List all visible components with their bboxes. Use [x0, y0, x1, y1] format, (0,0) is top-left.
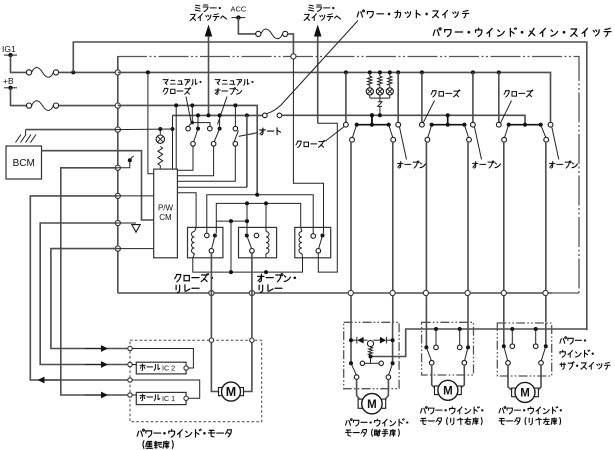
svg-text:+B: +B — [3, 76, 14, 86]
auto switch lower contact — [233, 142, 238, 147]
terminal dot — [128, 158, 132, 162]
RR center contacts — [435, 329, 437, 345]
manual open blade — [218, 127, 222, 131]
wire pass motor left — [357, 379, 360, 399]
wire open relay to motor — [241, 253, 252, 391]
passenger motor label — [346, 419, 409, 426]
wire RL motor left — [508, 365, 512, 390]
motor M driver — [219, 388, 223, 396]
junction RR feed — [434, 327, 438, 331]
auto switch upper contact — [233, 126, 238, 131]
auto switch feed drop — [233, 103, 237, 107]
relay3 contact — [311, 234, 316, 239]
hall IC1 box — [136, 392, 186, 404]
relay close coil — [192, 232, 195, 254]
P/W CM box — [154, 169, 178, 258]
connector pin bottom x425.9 — [423, 290, 428, 295]
wire pin168 to hall IC1 — [61, 168, 128, 395]
row A wire power cut output — [282, 115, 525, 124]
svg-text:ACC: ACC — [230, 5, 246, 14]
wire W1 coil common — [193, 258, 303, 272]
power cut switch label — [357, 10, 469, 18]
junction N2 b — [264, 201, 268, 205]
wire N4 relay1 contact — [215, 221, 217, 233]
junction zener row A — [378, 113, 382, 117]
connector pin left y72.4 — [115, 70, 120, 75]
connector pin bottom x392.6 — [390, 290, 395, 295]
svg-text:M: M — [226, 385, 236, 399]
resistor R1 — [159, 129, 161, 135]
pointer manual close — [186, 97, 192, 125]
fuse F3 ACC — [256, 31, 261, 36]
svg-text:IG1: IG1 — [2, 44, 16, 54]
hall IC1 pin — [184, 396, 188, 400]
switch group G2 rear right — [420, 70, 424, 74]
relay3 box — [295, 227, 331, 257]
manual switch contact jog — [192, 123, 210, 127]
junction G1 rowA — [370, 113, 374, 117]
wire hall IC1 out — [132, 380, 200, 398]
junction bus to CM — [146, 70, 150, 74]
relay close contact — [205, 233, 210, 238]
rear right chain box — [422, 322, 474, 375]
wire W2 relay3 blade to riser — [318, 123, 338, 272]
svg-text:CM: CM — [159, 213, 172, 222]
pointer close G3 — [501, 101, 512, 123]
BCM box — [6, 146, 42, 179]
junction N2 a — [245, 201, 249, 205]
motor M rear right — [435, 386, 439, 395]
svg-text:BCM: BCM — [13, 158, 35, 169]
wire ground to main switch pin — [26, 129, 116, 131]
close label G3 — [504, 90, 533, 97]
ground — [25, 130, 27, 135]
signal arrow left — [44, 379, 61, 381]
relay open label — [258, 274, 296, 282]
relay close label — [175, 274, 213, 282]
pointer manual open — [218, 97, 228, 125]
diode D1 — [351, 339, 357, 341]
hall pin y380 — [128, 378, 132, 382]
wire CM to relay1 coil — [177, 193, 196, 228]
power cut switch blade pointer — [267, 21, 358, 114]
wire close relay to motor — [211, 253, 221, 391]
arrow to mirror switch 2 — [317, 35, 319, 124]
illumination lamps — [368, 70, 372, 74]
hall IC2 pin — [184, 366, 188, 370]
wire relay1 contact to relay3 contact — [207, 195, 313, 234]
wire pin249 to CM — [118, 248, 154, 250]
junction lamp wire — [158, 127, 162, 131]
svg-text:M: M — [443, 385, 453, 397]
signal arrow 2 — [85, 364, 102, 366]
wire bus drop to CM — [148, 72, 154, 173]
motor M rear left — [512, 388, 516, 397]
connector pin left y129.6 — [115, 127, 120, 132]
RR blades — [426, 347, 431, 360]
signal arrow 3 — [85, 394, 102, 396]
wire RR motor right — [461, 365, 465, 388]
main switch solid edge bottom — [118, 292, 552, 294]
wire RR left drop — [425, 322, 427, 347]
wire ACC to fuse — [238, 18, 255, 34]
auto label — [260, 128, 281, 135]
passenger blades — [351, 363, 356, 375]
wire pin223 to hall IC2 — [40, 223, 127, 365]
pointer open G3 — [552, 127, 559, 160]
junction row2 c — [245, 113, 249, 117]
wire ACC to relay3 contact — [293, 59, 323, 233]
wire N2 to relay2 contact — [246, 203, 248, 233]
wire pin249 to hall — [51, 249, 128, 349]
wire open contact to CM — [177, 146, 213, 176]
switch group G3 rear left — [497, 70, 501, 74]
contact circle open lower — [211, 142, 216, 147]
wire BCM to P/W CM — [42, 151, 154, 220]
hall pin y364.5 — [128, 362, 132, 366]
close label G1 — [296, 140, 325, 147]
connector pin left y248.6 — [115, 246, 120, 251]
wire pin196 to hall left arrow — [30, 196, 127, 380]
diode D2 — [386, 339, 392, 341]
svg-text:IC 1: IC 1 — [162, 394, 175, 403]
manual close blade — [196, 127, 200, 131]
junction N3 b — [245, 219, 249, 223]
junction row2 b — [218, 113, 222, 117]
power cut switch — [263, 113, 268, 118]
connector pin bottom x503.8 — [501, 290, 506, 295]
junction IG1 feed riser — [71, 70, 75, 74]
junction pass feed — [369, 355, 373, 359]
wire lamp to CM top — [172, 129, 174, 169]
feed wire sub switches — [371, 329, 587, 357]
wire pin130 to lamp node — [115, 128, 172, 131]
junction RL feed — [510, 327, 514, 331]
wire IG1 feed top bus — [73, 42, 587, 330]
contact circle close lower — [191, 142, 196, 147]
svg-text:M: M — [367, 399, 377, 411]
pointer auto — [239, 133, 258, 137]
svg-text:M: M — [520, 388, 530, 400]
connector pin left y195.9 — [115, 193, 120, 198]
manual close label — [163, 79, 201, 85]
passenger switch bar — [360, 361, 364, 365]
relay open contact — [245, 234, 249, 238]
pointer open G2 — [475, 127, 482, 160]
connector pin bottom x545.5 — [543, 290, 548, 295]
wire RL left drop — [503, 323, 505, 346]
wire RR motor left — [432, 365, 435, 388]
contact circle close fixed — [186, 126, 191, 131]
connector pin bottom x467.6 — [465, 290, 470, 295]
relay open box — [239, 227, 277, 257]
connector pin left y167.8 — [115, 165, 120, 170]
connector pin left y223 — [115, 220, 120, 225]
pointer close G2 — [423, 101, 434, 123]
main switch chain outline — [117, 57, 579, 293]
wire RL motor right — [538, 365, 541, 390]
signal arrow 1 — [85, 348, 102, 350]
hall pin y348.5 — [128, 346, 132, 350]
wire auto contact to CM — [177, 146, 235, 181]
fuse F1 — [26, 70, 31, 75]
wire fuse to main switch pin — [59, 105, 116, 107]
driver motor dashed box — [130, 340, 262, 422]
circuit breaker — [367, 341, 373, 347]
connector pin bottom x211.4 — [209, 290, 214, 295]
open label G3 — [550, 161, 578, 168]
open label G2 — [473, 161, 501, 168]
driver motor box pins — [209, 338, 213, 342]
zener — [379, 98, 381, 102]
rear right motor label — [421, 407, 484, 414]
sub switch label — [560, 337, 586, 344]
hall pin y395 — [128, 393, 132, 397]
wire IG1 to fuse — [11, 55, 27, 72]
wire row2 to CM — [246, 115, 248, 187]
wire +B to fuse — [11, 88, 27, 106]
connector pin top ACC — [291, 54, 296, 59]
wire RL right drop — [545, 323, 547, 346]
wire N2 to relay2 coil — [265, 203, 267, 227]
open label G1 — [398, 161, 426, 168]
wire hall IC2 feed — [132, 349, 193, 369]
RL side contacts — [502, 344, 506, 348]
wire pin to terminal stub — [118, 162, 130, 168]
wire pin223 to signal ground — [118, 222, 136, 224]
wire pass motor right — [385, 379, 388, 399]
manual open label — [215, 79, 253, 85]
pointer open G1 — [400, 127, 407, 160]
driver motor label — [137, 429, 231, 437]
wire hall IC2 left — [132, 364, 136, 366]
auto switch blade — [234, 131, 238, 142]
wire row1 drop a — [174, 103, 178, 107]
wire N3 contact common — [216, 220, 247, 222]
junction W1 a — [229, 270, 233, 274]
power window main switch label — [433, 28, 611, 37]
wire fuse to main switch pin — [59, 71, 116, 73]
pointer close G1 — [326, 127, 345, 142]
main switch solid edge left — [117, 57, 119, 294]
junction pass diode row — [349, 338, 353, 342]
wire RR right drop — [467, 322, 469, 347]
junction W1 b — [264, 270, 268, 274]
wire N2 relay coils — [216, 203, 300, 227]
passenger sub switch chain box — [344, 322, 399, 388]
RL blades — [504, 346, 508, 361]
fuse F2 — [26, 103, 31, 108]
motor M passenger — [358, 399, 363, 408]
manual switch feed drop — [190, 103, 194, 107]
rear left motor label — [499, 407, 562, 414]
mirror switch label 2 — [309, 5, 335, 12]
wire pin196 to CM — [118, 195, 154, 197]
junction row2 a — [196, 113, 200, 117]
connector pin left y105.6 — [115, 103, 120, 108]
wire row2 drop to lamp node — [172, 115, 174, 168]
svg-text:IC 2: IC 2 — [162, 364, 175, 373]
arrow to mirror switch 1 — [208, 35, 210, 116]
wire close contact to CM — [177, 146, 193, 170]
bus wire B+ top — [118, 72, 551, 122]
rear left chain box — [497, 323, 551, 376]
RR side contacts — [424, 345, 428, 349]
switch group G1 front — [344, 70, 348, 74]
mirror switch label 1 — [195, 5, 221, 12]
wire N3 to W1 — [230, 221, 232, 272]
signal ground triangle — [132, 225, 140, 233]
close label G2 — [431, 90, 460, 97]
relay3 coil — [299, 232, 302, 254]
wire pass left drop — [350, 322, 352, 363]
relay close box — [188, 227, 223, 257]
wire breaker to bar — [370, 355, 372, 363]
svg-text:P/W: P/W — [158, 204, 174, 213]
wire hall IC1 left — [132, 394, 136, 396]
relay open coil — [266, 232, 269, 254]
junction N3 a — [229, 219, 233, 223]
junction N1 switch drop — [255, 193, 259, 197]
junction row2 arrow shaft — [207, 113, 211, 117]
contact circle common fixed — [208, 126, 213, 131]
wire fuse to pin — [288, 34, 294, 54]
hall IC2 box — [136, 362, 186, 374]
row1 wire manual feed — [118, 105, 257, 194]
RL center contacts — [511, 329, 513, 344]
passenger switch contacts — [349, 361, 353, 365]
row2 wire manual common — [173, 114, 265, 116]
connector pin bottom x251.9 — [249, 290, 254, 295]
connector pin bottom x350.8 — [348, 290, 353, 295]
wire pass right drop — [392, 322, 394, 363]
